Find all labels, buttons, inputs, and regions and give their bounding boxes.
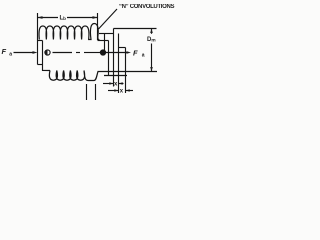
svg-text:a: a xyxy=(9,52,12,58)
dimension x1 tail left xyxy=(103,83,114,85)
dimension x2 tail right xyxy=(126,90,134,92)
dimension Lb left arrowhead xyxy=(38,16,43,19)
svg-text:a: a xyxy=(142,53,145,59)
dimension x1 right arrowhead xyxy=(119,82,123,84)
left end plate root step xyxy=(38,40,43,42)
dimension x2 tail left xyxy=(108,90,119,92)
leader to N CONVOLUTIONS xyxy=(99,9,118,29)
dimension Lb right arrowhead xyxy=(93,16,98,19)
pivot node right xyxy=(100,50,105,55)
lower auxiliary line xyxy=(104,75,127,77)
svg-text:Dm: Dm xyxy=(147,37,156,43)
dimension x1 left arrowhead xyxy=(109,82,113,84)
right collar root line xyxy=(98,40,109,42)
dimension x2 right arrowhead xyxy=(126,89,130,91)
right collar top line xyxy=(99,33,114,35)
left end plate outer line xyxy=(37,41,39,65)
left lower step to lower convolutions xyxy=(43,65,51,71)
force Fa left arrow xyxy=(14,52,35,54)
left end plate inner line xyxy=(42,41,44,65)
dimension Lb extension line right xyxy=(97,13,99,40)
right collar inner vertical xyxy=(104,34,106,51)
dimension Lb extension line left xyxy=(37,13,39,41)
lower convolution extension line A xyxy=(86,84,88,100)
centerline long dash 1 xyxy=(53,52,73,54)
svg-text:x: x xyxy=(120,89,124,95)
upper bellows convolutions xyxy=(39,24,100,41)
Dm top reference line xyxy=(114,28,157,30)
right plate vertical 4 xyxy=(125,48,127,94)
dimension Lb line right segment xyxy=(67,17,98,19)
dimension Lb line left segment xyxy=(38,17,59,19)
dimension x2 left arrowhead xyxy=(114,89,118,91)
left end plate bottom flange line xyxy=(38,64,43,66)
centerline through right plates to Fa xyxy=(106,52,128,54)
pivot node left xyxy=(45,50,50,55)
Dm top arrowhead xyxy=(150,29,153,34)
centerline long dash 2 xyxy=(84,52,100,54)
right plate vertical 2 xyxy=(113,29,115,87)
right plate vertical 1 xyxy=(108,41,110,77)
Dm dimension line xyxy=(151,29,153,34)
right plate step xyxy=(119,47,126,49)
right plate vertical 3 xyxy=(118,34,120,94)
svg-text:Lb: Lb xyxy=(60,16,67,22)
svg-text:x: x xyxy=(114,82,118,88)
Dm bottom arrowhead xyxy=(150,67,153,72)
svg-text:F: F xyxy=(133,49,138,58)
lower convolution extension line B xyxy=(95,84,97,100)
svg-text:F: F xyxy=(2,47,7,56)
dimension x1 tail right xyxy=(119,83,124,85)
centerline short dash xyxy=(76,52,80,54)
svg-text:“N” CONVOLUTIONS: “N” CONVOLUTIONS xyxy=(119,4,175,10)
lower bellows convolutions xyxy=(49,71,157,81)
